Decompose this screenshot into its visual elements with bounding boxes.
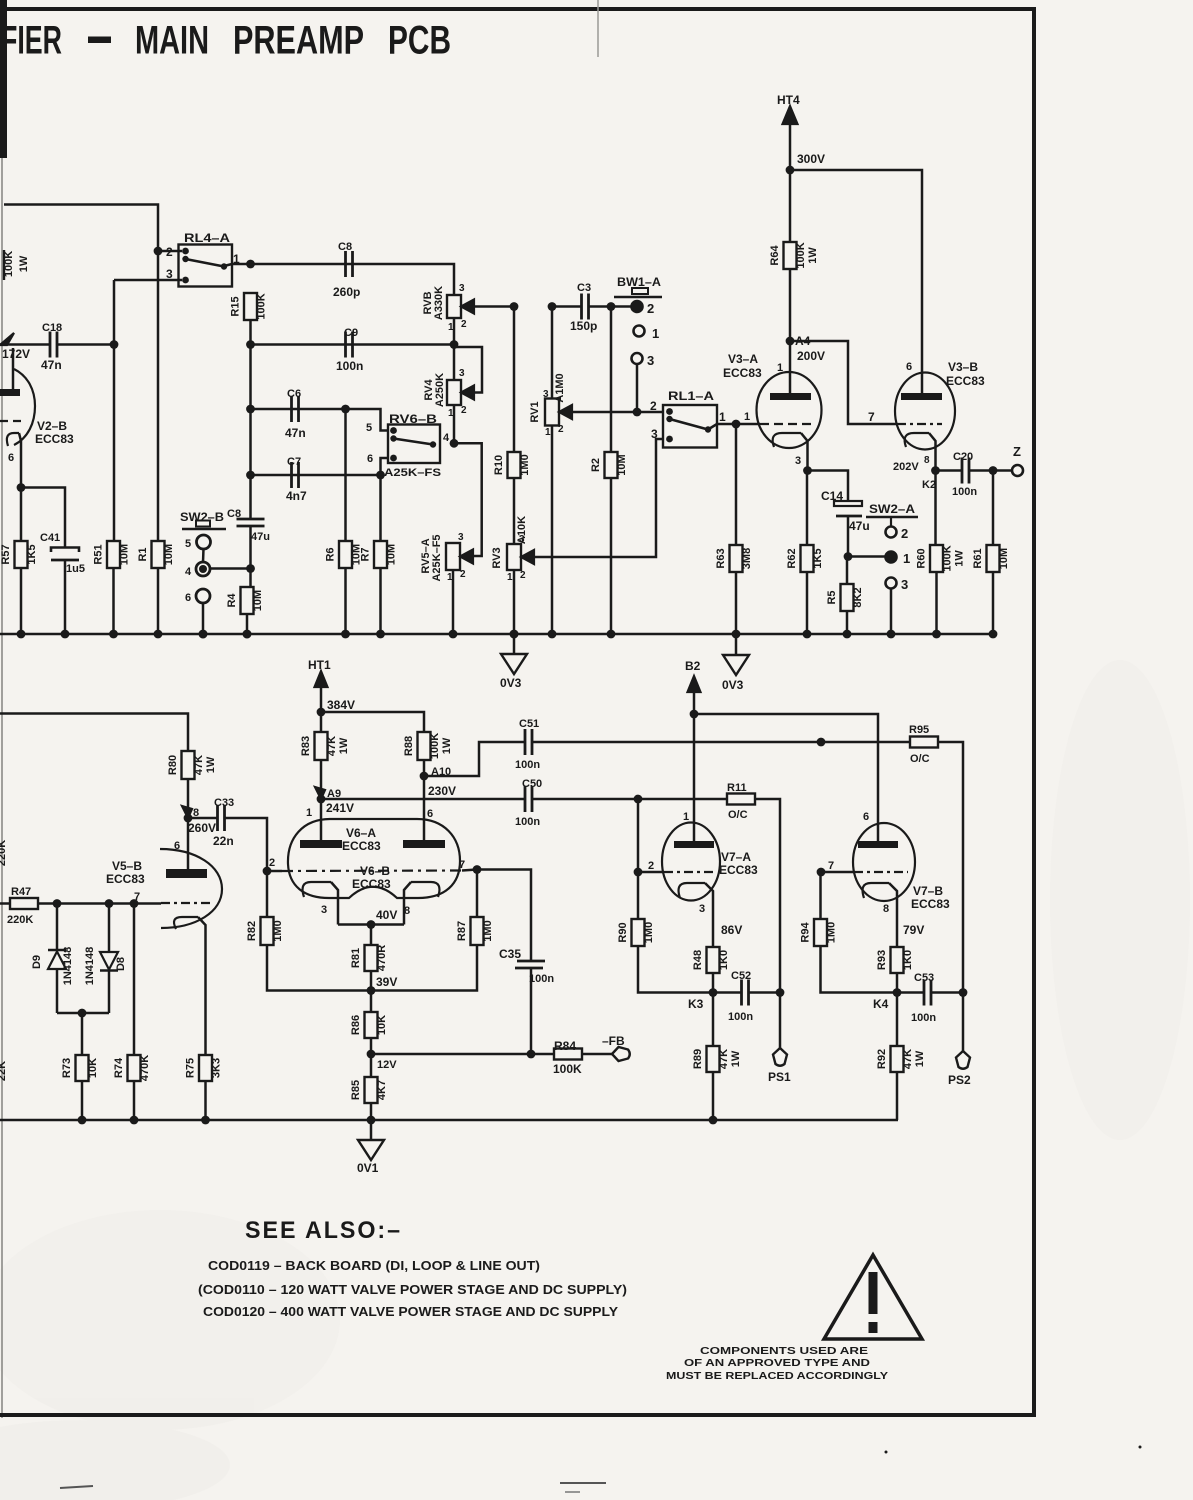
- wire R4 to ground bus: [246, 614, 249, 634]
- wire RV3 pin1 to ground bus: [513, 570, 516, 634]
- wire BW1-A pin3 down to RV1 wiper wire: [636, 364, 639, 412]
- svg-text:HT4: HT4: [777, 93, 800, 107]
- wire C9 branch to RVB pin1: [251, 343, 455, 346]
- svg-text:C51: C51: [519, 718, 539, 730]
- svg-text:O/C: O/C: [910, 753, 930, 765]
- svg-text:PREAMP: PREAMP: [233, 19, 364, 63]
- node D9 branch: [53, 899, 62, 908]
- svg-text:1W: 1W: [441, 737, 453, 754]
- switch SW2-A: [866, 502, 918, 589]
- capacitor C33 22n: [213, 797, 234, 848]
- label V3-A ECC83: [723, 352, 762, 380]
- potentiometer RV1 A1M0: [529, 373, 572, 425]
- capacitor C53 100n: [911, 972, 936, 1024]
- wire tee up to RV6-B pin6: [381, 458, 391, 475]
- resistor R75 3K3: [199, 1055, 212, 1081]
- wire grid node to R94: [819, 872, 822, 919]
- resistor R88 100K 1W: [418, 732, 431, 760]
- pin 1 2 labels RV1: [545, 424, 564, 438]
- wire junction to SW2-A pin1: [848, 555, 885, 558]
- svg-text:R93: R93: [876, 950, 888, 970]
- node pin4 wire junction: [246, 564, 255, 573]
- svg-text:PS1: PS1: [768, 1070, 791, 1084]
- svg-text:220K: 220K: [0, 840, 8, 866]
- svg-text:22n: 22n: [213, 834, 234, 848]
- resistor R5 8K2: [841, 584, 854, 611]
- svg-text:100n: 100n: [515, 816, 540, 828]
- node V7-A grid: [634, 868, 643, 877]
- svg-text:R11: R11: [727, 782, 747, 794]
- svg-text:PS2: PS2: [948, 1073, 971, 1087]
- switch RV6-B wafer: [388, 412, 440, 463]
- ground 0V3 right: [722, 634, 749, 692]
- wire R80 to node A8: [187, 779, 190, 818]
- capacitor C3 150p: [570, 282, 597, 333]
- capacitor C52 100n: [728, 970, 753, 1023]
- wire R63 to ground bus: [735, 572, 738, 634]
- wire A8 to C33: [188, 817, 218, 820]
- resistor R87 1M0: [471, 917, 484, 945]
- svg-text:C3: C3: [577, 282, 591, 294]
- capacitor C6 47n: [285, 388, 306, 440]
- wire node to R5: [846, 557, 849, 585]
- node A4 200V: [786, 334, 825, 363]
- capacitor C20 100n: [952, 451, 977, 498]
- svg-text:A1M0: A1M0: [554, 373, 566, 402]
- svg-text:1K5: 1K5: [26, 544, 38, 564]
- wire C50 to V7-A grid node: [532, 798, 638, 801]
- svg-text:COMPONENTS USED ARE: COMPONENTS USED ARE: [700, 1345, 868, 1357]
- ground 0V3 left: [500, 634, 527, 690]
- svg-text:V6–A: V6–A: [346, 826, 376, 840]
- node V7-B grid: [817, 868, 826, 877]
- potentiometer RV4 A250K: [423, 373, 474, 407]
- node R2 branch: [607, 302, 616, 311]
- wire R64 to node A4: [789, 269, 792, 341]
- anode V7-B: [858, 841, 898, 848]
- svg-text:R80: R80: [167, 755, 179, 775]
- wire R81 to 39V node: [370, 971, 373, 991]
- pin 3 label relay RL4-A: [114, 267, 182, 281]
- svg-text:8: 8: [883, 903, 889, 915]
- wire SW2-A pin3 to ground bus: [890, 589, 893, 635]
- resistor R62 1K5: [801, 545, 814, 572]
- svg-text:C41: C41: [40, 532, 60, 544]
- node diode junction: [78, 1009, 87, 1018]
- svg-text:1u5: 1u5: [66, 563, 85, 575]
- capacitor C7 4n7: [286, 456, 307, 503]
- node 300V: [786, 152, 825, 174]
- wire R86 to 12V node: [370, 1038, 373, 1054]
- svg-text:A25K–F5: A25K–F5: [431, 534, 443, 581]
- wire SW2-B pin6 to ground bus: [202, 603, 205, 635]
- svg-text:10M: 10M: [998, 548, 1010, 569]
- grid line V6: [267, 870, 477, 872]
- node C9 wire branch: [246, 340, 255, 349]
- svg-text:R60: R60: [916, 548, 928, 568]
- svg-text:3M8: 3M8: [741, 548, 753, 569]
- svg-text:1: 1: [507, 572, 513, 583]
- tube V3-A ECC83 envelope: [757, 372, 822, 448]
- node A9 241V: [315, 787, 354, 815]
- svg-text:2: 2: [650, 399, 657, 413]
- svg-text:1K0: 1K0: [718, 950, 730, 970]
- cathode V7-B: [863, 883, 897, 947]
- anode V3-B: [901, 393, 942, 400]
- anode V7-A: [674, 841, 714, 848]
- node V6 grid left pin2: [263, 857, 276, 875]
- wire R51 to ground bus: [112, 568, 115, 634]
- svg-text:COD0119 – BACK BOARD (DI, LOOP: COD0119 – BACK BOARD (DI, LOOP & LINE OU…: [208, 1258, 540, 1273]
- wire pin2 junction down to R1: [157, 251, 160, 541]
- svg-text:2: 2: [648, 860, 654, 872]
- wire R89 to lower bus: [712, 1072, 715, 1120]
- svg-text:R64: R64: [769, 245, 781, 266]
- svg-text:ECC83: ECC83: [342, 839, 381, 853]
- tube V3-B ECC83 envelope: [895, 373, 955, 450]
- wire A9 to C50 coupling line: [321, 798, 525, 801]
- svg-text:K2: K2: [922, 479, 936, 491]
- pin 1 2 labels RV5-A: [447, 569, 466, 583]
- wire cathode junction down to R57: [20, 488, 23, 542]
- potentiometer RV3 A10K: [491, 516, 534, 570]
- node C7 wire branch: [246, 471, 255, 480]
- cathode V3-B: [905, 433, 936, 471]
- wire C33 to V6 grid node: [225, 818, 268, 871]
- wire C18 to junction: [57, 343, 114, 346]
- resistor R95 O/C: [909, 724, 938, 765]
- node K3: [688, 988, 717, 1011]
- title text MAIN PREAMP PCB: [1, 19, 451, 63]
- resistor R86 10K: [365, 1012, 378, 1038]
- svg-text:10M: 10M: [616, 454, 628, 475]
- svg-text:1K0: 1K0: [902, 950, 914, 970]
- svg-text:(COD0110 – 120 WATT VALVE POWE: (COD0110 – 120 WATT VALVE POWER STAGE AN…: [198, 1282, 627, 1297]
- wire K4 to C53: [897, 991, 924, 994]
- wire grid node to R95: [821, 741, 911, 744]
- resistor R1 10M: [152, 541, 165, 568]
- svg-text:RV1: RV1: [529, 401, 541, 422]
- resistor R84 100K: [553, 1039, 582, 1076]
- svg-text:B2: B2: [685, 659, 701, 673]
- bus junction dots upper: [17, 630, 998, 639]
- svg-text:ECC83: ECC83: [35, 432, 74, 446]
- wire left edge to R47: [0, 902, 10, 905]
- svg-text:R4: R4: [226, 593, 238, 608]
- svg-text:202V: 202V: [893, 461, 919, 473]
- anode V3-A: [770, 341, 811, 400]
- wire 40V to R81: [370, 925, 373, 946]
- svg-text:10K: 10K: [87, 1058, 99, 1078]
- svg-text:6: 6: [863, 811, 869, 823]
- left page-edge dark scan band: [0, 0, 7, 158]
- svg-text:V3–A: V3–A: [728, 352, 758, 366]
- node BW1-A pin3 junction: [633, 408, 642, 417]
- wire grid node to R11: [638, 798, 727, 801]
- svg-text:4n7: 4n7: [286, 489, 307, 503]
- node 12V: [367, 1050, 398, 1071]
- wire RV4 pin1 down to RV6-B pin4 node: [453, 405, 456, 443]
- svg-text:10M: 10M: [163, 544, 175, 565]
- wire R94 to K4 line: [821, 946, 898, 993]
- node V3-A grid junction: [732, 420, 741, 429]
- capacitor C18 47n: [41, 322, 62, 372]
- node R74 branch: [130, 899, 139, 908]
- grid V3-B: [897, 423, 942, 425]
- svg-text:260V: 260V: [188, 821, 216, 835]
- svg-text:1W: 1W: [338, 737, 350, 754]
- svg-text:HT1: HT1: [308, 658, 331, 672]
- node R6 branch on C6 wire: [341, 405, 350, 414]
- svg-text:100K: 100K: [553, 1062, 582, 1076]
- svg-text:SW2–A: SW2–A: [869, 502, 915, 516]
- wire riser to PS2: [962, 993, 965, 1052]
- node K4: [873, 988, 901, 1011]
- anode V6-A: [300, 799, 342, 848]
- diode D8 1N4148: [84, 904, 127, 1014]
- svg-text:R57: R57: [0, 544, 12, 564]
- svg-text:R6: R6: [325, 547, 337, 561]
- svg-text:8: 8: [404, 905, 410, 917]
- svg-text:470R: 470R: [376, 945, 388, 971]
- wire R75 to lower bus: [204, 1081, 207, 1120]
- wire relay pin3 down via C18 node to R51: [113, 280, 116, 541]
- svg-text:R47: R47: [11, 886, 31, 898]
- svg-text:1W: 1W: [205, 756, 217, 773]
- svg-text:2: 2: [647, 301, 654, 316]
- svg-text:D9: D9: [31, 955, 43, 969]
- wire SW2-B pin5 to pin4: [202, 549, 205, 563]
- resistor R48 1K0: [707, 947, 720, 973]
- node C6 wire branch: [246, 405, 255, 414]
- wire R82 to 39V wire: [267, 945, 371, 991]
- node RV6-B pin6 tee: [376, 471, 385, 480]
- node relay pin2 junction: [154, 247, 163, 256]
- svg-text:3: 3: [459, 368, 465, 379]
- node C14/R5/SW2-A junction: [844, 552, 853, 561]
- label V7-A ECC83: [719, 850, 758, 877]
- svg-text:0V1: 0V1: [357, 1161, 379, 1175]
- cathode V7-A: [679, 883, 713, 947]
- grid V3-A: [736, 423, 812, 426]
- wire cathode junction to C41 branch: [21, 488, 65, 548]
- node RVB pin1 / RV4 pin3: [450, 340, 459, 349]
- svg-text:MUST BE REPLACED ACCORDINGLY: MUST BE REPLACED ACCORDINGLY: [666, 1370, 888, 1382]
- svg-text:1N4148: 1N4148: [84, 947, 96, 986]
- pin 1 2 labels RVB: [448, 319, 467, 333]
- anode V6-B: [403, 840, 445, 848]
- wire RV1 wiper to relay RL1-A pin2: [570, 411, 664, 414]
- svg-text:6: 6: [367, 453, 373, 465]
- svg-text:A25K–FS: A25K–FS: [384, 467, 441, 479]
- wire C7 branch to RV6-B pin6: [251, 474, 381, 477]
- wire R93 to K4: [896, 973, 899, 993]
- bus junction dots lower: [78, 1116, 718, 1125]
- node RV3 on bus with ground: [510, 630, 519, 639]
- svg-text:R5: R5: [826, 590, 838, 604]
- node A3 input 172V: [0, 333, 30, 361]
- wire C3 to BW1-A pin2: [589, 305, 633, 308]
- stray scan marks bottom: [60, 1446, 1142, 1493]
- svg-text:2: 2: [269, 857, 275, 869]
- wire R6 top lead: [344, 409, 347, 541]
- capacitor C50 100n: [515, 778, 542, 828]
- svg-text:FIER: FIER: [1, 19, 62, 63]
- wire pin7 to C35: [477, 870, 531, 962]
- wire A10 down to V6-B anode: [423, 776, 426, 840]
- resistor R7 10M: [374, 541, 387, 568]
- node SW2-B pin6 on bus: [199, 630, 208, 639]
- node B2 branch: [690, 710, 699, 719]
- wire R48 to K3: [712, 973, 715, 993]
- resistor R10 1M0: [508, 452, 521, 478]
- svg-text:5: 5: [366, 422, 372, 434]
- svg-text:V7–B: V7–B: [913, 884, 943, 898]
- svg-text:22K: 22K: [0, 1061, 8, 1081]
- wire tone net down to R10: [513, 307, 516, 453]
- svg-text:2: 2: [558, 424, 564, 435]
- wire V3-A cathode to C14: [808, 471, 849, 503]
- wire left edge to R80: [0, 714, 188, 752]
- wire diodes common: [57, 1012, 109, 1015]
- node V7-A grid riser: [634, 795, 643, 804]
- svg-text:39V: 39V: [376, 975, 397, 989]
- svg-text:1: 1: [545, 427, 551, 438]
- node V3-B cathode: [931, 466, 940, 475]
- svg-text:3: 3: [519, 534, 525, 545]
- resistor R80 47K 1W: [182, 751, 195, 779]
- wire C6 branch to RV6-B pin5: [251, 409, 391, 431]
- svg-text:1W: 1W: [730, 1050, 742, 1067]
- svg-text:3: 3: [901, 577, 908, 592]
- svg-text:6: 6: [8, 452, 14, 464]
- svg-text:3: 3: [651, 427, 658, 441]
- svg-text:R90: R90: [617, 922, 629, 942]
- wire C41 to ground bus: [64, 560, 67, 634]
- wire C51 to V7-B grid node: [532, 741, 821, 744]
- wire R92 to lower bus: [896, 1072, 899, 1120]
- svg-text:2: 2: [520, 570, 526, 581]
- wire RV6-B pin4 to wiper of RV5-A: [454, 443, 482, 556]
- wire 39V to R86: [370, 991, 373, 1013]
- warning triangle: [824, 1255, 922, 1339]
- svg-text:1: 1: [777, 362, 783, 374]
- resistor R6 10M: [339, 541, 352, 568]
- tube V7-B ECC83 envelope: [853, 823, 915, 901]
- svg-text:5: 5: [185, 538, 191, 550]
- svg-text:1: 1: [306, 807, 312, 819]
- supply arrow HT4 300V: [777, 93, 800, 170]
- wire R87 to 39V wire: [371, 945, 477, 991]
- svg-text:1K5: 1K5: [812, 548, 824, 568]
- svg-text:47K: 47K: [902, 1049, 914, 1069]
- pin 1 2 labels RV4: [448, 405, 467, 419]
- svg-text:1N4148: 1N4148: [62, 947, 74, 986]
- svg-text:7: 7: [828, 860, 834, 872]
- resistor R63 3M8: [730, 545, 743, 572]
- svg-text:220K: 220K: [7, 914, 33, 926]
- node A8 260V: [182, 806, 216, 835]
- svg-text:RL1–A: RL1–A: [668, 389, 714, 403]
- label V2-B ECC83: [35, 419, 74, 446]
- svg-text:R94: R94: [800, 922, 812, 943]
- wire RV3 wiper to RL1-A pin3: [531, 439, 667, 557]
- resistor R85 4K7: [365, 1077, 378, 1103]
- resistor R11 O/C: [727, 782, 755, 821]
- svg-text:ECC83: ECC83: [911, 897, 950, 911]
- resistor R82 1M0: [261, 917, 274, 945]
- wire K4 to R92: [896, 993, 899, 1047]
- node tone net R10 branch: [510, 302, 519, 311]
- svg-text:2: 2: [901, 526, 908, 541]
- pin 1 2 labels RV3: [507, 570, 526, 583]
- svg-text:47K: 47K: [326, 736, 338, 756]
- lower ground bus 0V1: [0, 1119, 898, 1121]
- svg-text:10K: 10K: [376, 1015, 388, 1035]
- diode D9 1N4148: [31, 904, 74, 1014]
- node relay output column top: [246, 260, 255, 269]
- wire C20 to Z terminal: [969, 469, 1012, 472]
- capacitor C35 100n: [499, 947, 554, 985]
- svg-text:R89: R89: [692, 1049, 704, 1069]
- svg-text:1: 1: [719, 410, 726, 424]
- wire V6 pin7 to R87: [476, 870, 479, 918]
- wire R84 to FB terminal: [582, 1053, 612, 1056]
- label V7-B ECC83: [911, 884, 950, 911]
- node C35 on 12V bus: [527, 1050, 536, 1059]
- upper ground bus 0V3: [0, 633, 993, 635]
- resistor R94 1M0: [814, 919, 827, 946]
- svg-text:R84: R84: [554, 1039, 576, 1053]
- node V6 grid right pin7: [459, 859, 481, 874]
- resistor R89 47K 1W: [707, 1046, 720, 1072]
- svg-text:100n: 100n: [336, 359, 363, 373]
- svg-text:–FB: –FB: [602, 1034, 625, 1048]
- svg-text:47K: 47K: [193, 755, 205, 775]
- svg-text:6: 6: [906, 361, 912, 373]
- node tone net RV1 branch: [548, 302, 557, 311]
- wire R74 top lead: [133, 904, 136, 1056]
- label V5-B ECC83: [106, 859, 145, 886]
- svg-text:300V: 300V: [797, 152, 825, 166]
- svg-text:SEE ALSO:–: SEE ALSO:–: [245, 1217, 402, 1244]
- svg-text:1W: 1W: [18, 255, 30, 272]
- resistor R93 1K0: [891, 947, 904, 973]
- resistor R47 220K: [7, 886, 38, 926]
- resistor R61 10M: [987, 545, 1000, 572]
- svg-text:R82: R82: [246, 921, 258, 941]
- wire cathodes join 40V: [338, 923, 404, 926]
- wire R2 to ground bus: [610, 478, 613, 634]
- wire cathode node to C20: [936, 469, 963, 472]
- node V3-A cathode: [803, 466, 812, 475]
- svg-text:MAIN: MAIN: [135, 19, 209, 63]
- svg-text:3: 3: [459, 283, 465, 294]
- wire R10 to RV3: [513, 478, 516, 544]
- supply arrow B2: [685, 659, 701, 714]
- svg-text:R95: R95: [909, 724, 929, 736]
- svg-text:1M0: 1M0: [519, 454, 531, 475]
- svg-text:1W: 1W: [807, 247, 819, 264]
- cathode V5-B: [174, 917, 206, 1055]
- wire R62 to ground bus: [806, 572, 809, 634]
- svg-text:260p: 260p: [333, 285, 360, 299]
- svg-text:79V: 79V: [903, 923, 924, 937]
- svg-text:ECC83: ECC83: [946, 374, 985, 388]
- wire R61 to ground bus: [992, 572, 995, 634]
- svg-text:1M0: 1M0: [272, 920, 284, 941]
- svg-text:100n: 100n: [515, 759, 540, 771]
